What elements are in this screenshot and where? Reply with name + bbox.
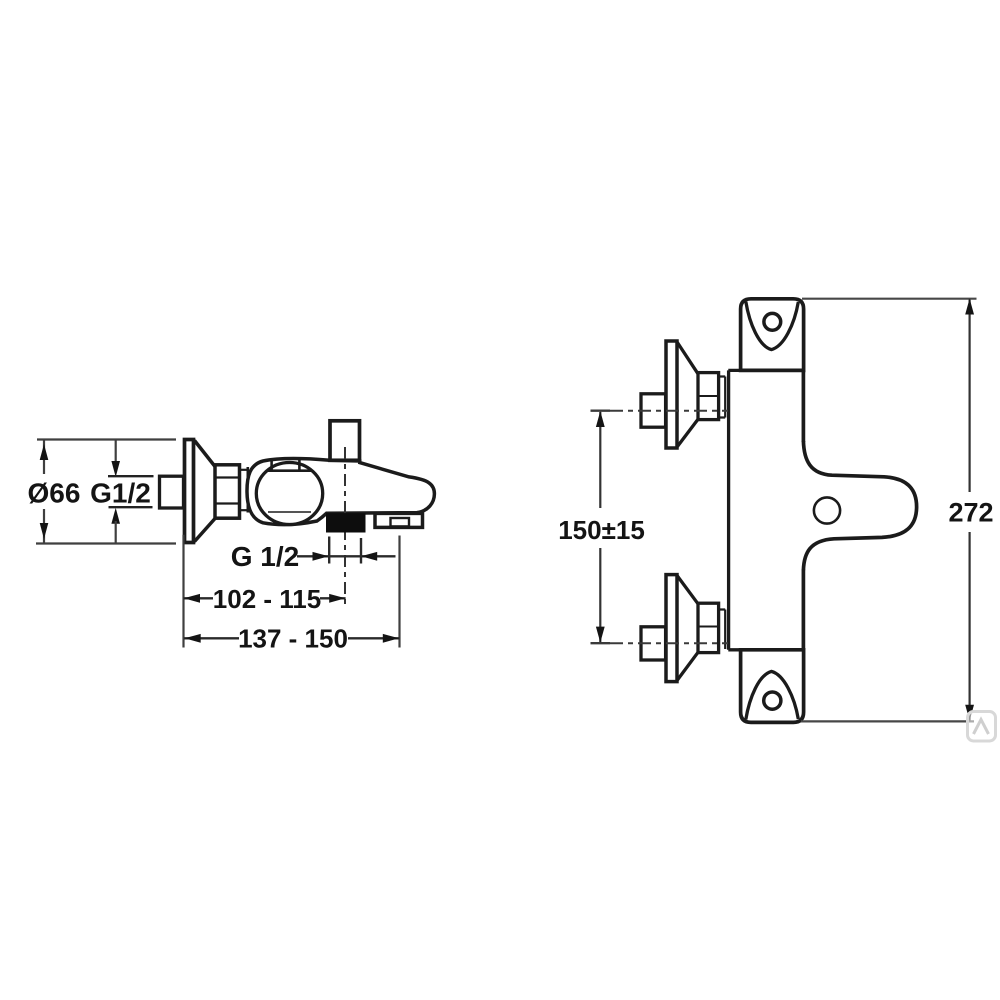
top flange cone upper slant [677, 343, 698, 374]
flange cone lower slant [195, 519, 216, 542]
hex nut facet line upper [215, 476, 240, 478]
bottom inlet centerline tick [591, 642, 611, 644]
dim G1/2 down arrow [111, 461, 120, 477]
svg-text:G 1/2: G 1/2 [231, 541, 299, 572]
top tab hole [764, 313, 781, 330]
watermark chevron [974, 720, 989, 735]
svg-text:150±15: 150±15 [558, 515, 645, 545]
bottom hex nut facet [698, 626, 719, 628]
dim 137-150 right arrow [383, 634, 399, 643]
dim 150±15 down arrow [596, 627, 605, 643]
bottom inlet centerline dashed [610, 642, 728, 644]
dim Ø66 down arrow [40, 523, 49, 539]
dim 272 bottom extension line [801, 720, 974, 722]
bottom flange rim (front view) [666, 575, 677, 682]
diverter knob [330, 421, 360, 461]
connector ring top edge [240, 469, 248, 471]
dim G1/2 up arrow [111, 508, 120, 524]
handle circle [256, 463, 322, 525]
dim G 1/2 spout line [297, 555, 396, 557]
bottom tab hole [764, 692, 781, 709]
outlet black block [326, 513, 366, 532]
body bottom shoulder [728, 648, 804, 651]
svg-text:137 - 150: 137 - 150 [238, 623, 348, 653]
right extension line (spout end) [398, 536, 400, 648]
dim 272 line upper segment [968, 300, 970, 493]
top flange rim (front view) [666, 341, 677, 448]
dim Ø66 up arrow [40, 444, 49, 460]
bottom flange cone lower slant [677, 652, 698, 680]
top flange cone lower slant [677, 419, 698, 446]
aerator insert [391, 518, 410, 526]
dim 150±15 line lower segment [599, 548, 601, 642]
svg-text:G1/2: G1/2 [90, 478, 151, 509]
dim 102-115 left segment [184, 597, 214, 599]
dim G 1/2 right-pointing arrow [313, 552, 329, 561]
bulge hole [814, 497, 840, 523]
dim G1/2 lower tick [109, 506, 153, 508]
dim Ø66 line lower segment [43, 509, 45, 544]
dim G 1/2 left-pointing arrow [361, 552, 377, 561]
body right edge upper [802, 370, 806, 442]
bottom mounting tab [741, 650, 804, 723]
handle notch right tick [298, 460, 301, 471]
svg-text:Ø66: Ø66 [28, 478, 81, 509]
svg-text:272: 272 [948, 498, 993, 528]
hex nut (side view) [215, 465, 240, 518]
handle bottom chord [268, 511, 311, 513]
connector ring right edge [247, 467, 250, 513]
dim 272 top extension line [802, 298, 977, 300]
dim 272 up arrow [965, 299, 974, 315]
dim G1/2 line lower segment [115, 521, 117, 544]
top connector cylinder [719, 377, 726, 418]
dim Ø66 bottom extension line [36, 542, 176, 544]
top inlet centerline tick [591, 410, 611, 412]
body right edge lower [802, 570, 806, 650]
dim 102-115 right arrow [329, 594, 345, 603]
dim 150±15 line upper segment [599, 412, 601, 508]
top tab shield curve [746, 302, 799, 350]
outlet box [375, 513, 423, 527]
top mounting tab [741, 299, 804, 371]
flange cone upper slant [195, 441, 216, 467]
connector ring bottom edge [240, 509, 248, 511]
dim G 1/2 left tick [328, 537, 330, 564]
left extension line (wall plane) [182, 535, 184, 648]
spout centerline dashed [344, 447, 346, 604]
inlet pipe (side view) [160, 476, 184, 508]
dim 272 down arrow [965, 705, 974, 721]
body top shoulder [728, 369, 804, 372]
dim 137-150 left arrow [185, 634, 201, 643]
bottom connector cylinder [719, 610, 726, 650]
handle notch left tick [270, 459, 273, 470]
top inlet pipe (front view) [641, 394, 666, 427]
top hex nut facet [698, 395, 719, 397]
dim 137-150 right segment [348, 637, 399, 639]
dim G1/2 line upper segment [115, 440, 117, 463]
dim 102-115 left arrow [184, 594, 200, 603]
wall flange rim [185, 440, 194, 543]
top inlet centerline dashed [610, 410, 728, 412]
bottom inlet pipe (front view) [641, 627, 666, 660]
dim Ø66 top extension line [37, 438, 176, 440]
handle top chord [267, 469, 312, 472]
dim 102-115 right segment [320, 597, 346, 599]
svg-text:102 - 115: 102 - 115 [213, 584, 321, 614]
dim 150±15 up arrow [596, 411, 605, 427]
body left edge [727, 370, 730, 649]
body right bulge profile [803, 441, 916, 570]
bottom flange cone upper slant [677, 576, 698, 604]
top hex nut (front view) [698, 373, 719, 420]
dim 272 line lower segment [968, 532, 970, 721]
dim 137-150 left segment [184, 637, 239, 639]
bottom tab shield curve [746, 671, 799, 719]
hex nut facet line lower [215, 502, 240, 504]
watermark badge [968, 712, 996, 742]
dim Ø66 line upper segment [43, 440, 45, 475]
mixer body and spout outline [247, 459, 434, 525]
bottom hex nut (front view) [698, 603, 719, 652]
dim G 1/2 right tick [360, 538, 362, 564]
dim G1/2 upper tick [108, 475, 154, 477]
